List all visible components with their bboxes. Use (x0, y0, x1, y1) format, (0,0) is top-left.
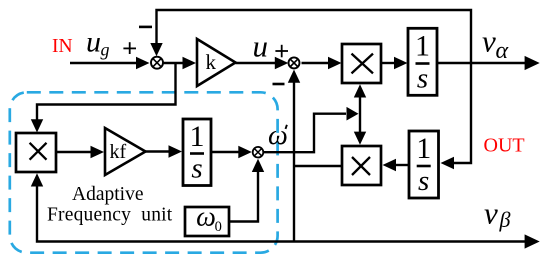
dashed Adaptive Frequency unit boundary (10, 92, 278, 252)
svg-text:OUT: OUT (484, 135, 525, 157)
wire: v_alpha feedback down to integrator I2 (441, 63, 472, 169)
svg-text:Adaptive: Adaptive (72, 184, 143, 205)
svg-text:v: v (484, 196, 498, 231)
svg-text:1: 1 (416, 132, 431, 165)
integrator I1 (1/s) (408, 28, 437, 95)
minus sign at summing node S2 (273, 83, 285, 86)
wire: M3 to gain kf (56, 146, 104, 158)
wire: I3 to summing node S3 (211, 146, 252, 158)
plus sign at summing node S1 (123, 42, 136, 54)
gain kf triangle (105, 128, 146, 175)
svg-text:ω: ω (268, 120, 288, 151)
wire: M1 to integrator I1 (381, 57, 408, 69)
wire: v_beta output line with elbow up into M3 bottom (31, 173, 540, 248)
wire: top feedback v_alpha to S1 (minus input) (150, 10, 471, 63)
svg-text:s: s (418, 165, 429, 197)
label v_beta (484, 196, 511, 233)
summing node S3 (circle with cross) (253, 147, 264, 158)
wire: qv feedback vertical into S2 (minus) and down to v_beta rail (288, 70, 300, 242)
integrator I2 (1/s) (409, 131, 439, 198)
svg-text:1: 1 (415, 29, 430, 62)
svg-text:g: g (101, 40, 110, 60)
wire: k to S2 (236, 57, 289, 69)
gain k triangle (197, 39, 236, 86)
svg-text:s: s (417, 62, 428, 94)
wire: S1 to gain k (163, 57, 197, 69)
svg-text:β: β (499, 207, 511, 232)
svg-text:u: u (86, 26, 101, 59)
integrator I3 (1/s) (183, 119, 211, 186)
wire: S2 to multiplier M1 (302, 57, 342, 69)
svg-text:s: s (191, 152, 202, 184)
svg-text:Frequency unit: Frequency unit (47, 204, 173, 225)
svg-text:u: u (253, 29, 269, 64)
svg-text:IN: IN (52, 36, 73, 57)
omega_0 block (185, 202, 229, 236)
wire: input line into S1 (70, 57, 150, 69)
svg-text:α: α (496, 38, 509, 64)
svg-text:v: v (482, 24, 496, 59)
multiplier M2 box with cross (342, 146, 381, 185)
summing node S1 (circle with cross) (151, 57, 163, 69)
svg-text:kf: kf (110, 141, 127, 163)
wire: I2 to M2 (383, 159, 410, 171)
svg-text:k: k (206, 50, 217, 74)
wire: kf to integrator I3 (146, 145, 183, 157)
minus sign at summing node S1 (139, 26, 152, 29)
label u_g (86, 26, 110, 60)
label v_alpha (482, 24, 509, 64)
multiplier M3 box with cross (in AFU) (16, 133, 56, 172)
wire: omega rail into multipliers (double arrow vertical) (354, 84, 366, 145)
svg-text:ω: ω (196, 202, 216, 233)
wire: S3 (omega) up to multiplier rail (264, 107, 359, 152)
summing node S2 (circle with cross) (289, 57, 300, 68)
wire: M2 output to qv rail (294, 165, 342, 167)
multiplier M1 box with cross (342, 44, 381, 83)
svg-text:1: 1 (190, 120, 205, 153)
wire: error tap down to AFU multiplier M3 (31, 63, 176, 133)
svg-text:0: 0 (215, 219, 222, 235)
plus sign at summing node S2 (275, 45, 288, 58)
wire: omega_0 to S3 (229, 159, 264, 222)
wire: I1 to v_alpha output (437, 56, 540, 70)
label omega prime (268, 120, 288, 151)
